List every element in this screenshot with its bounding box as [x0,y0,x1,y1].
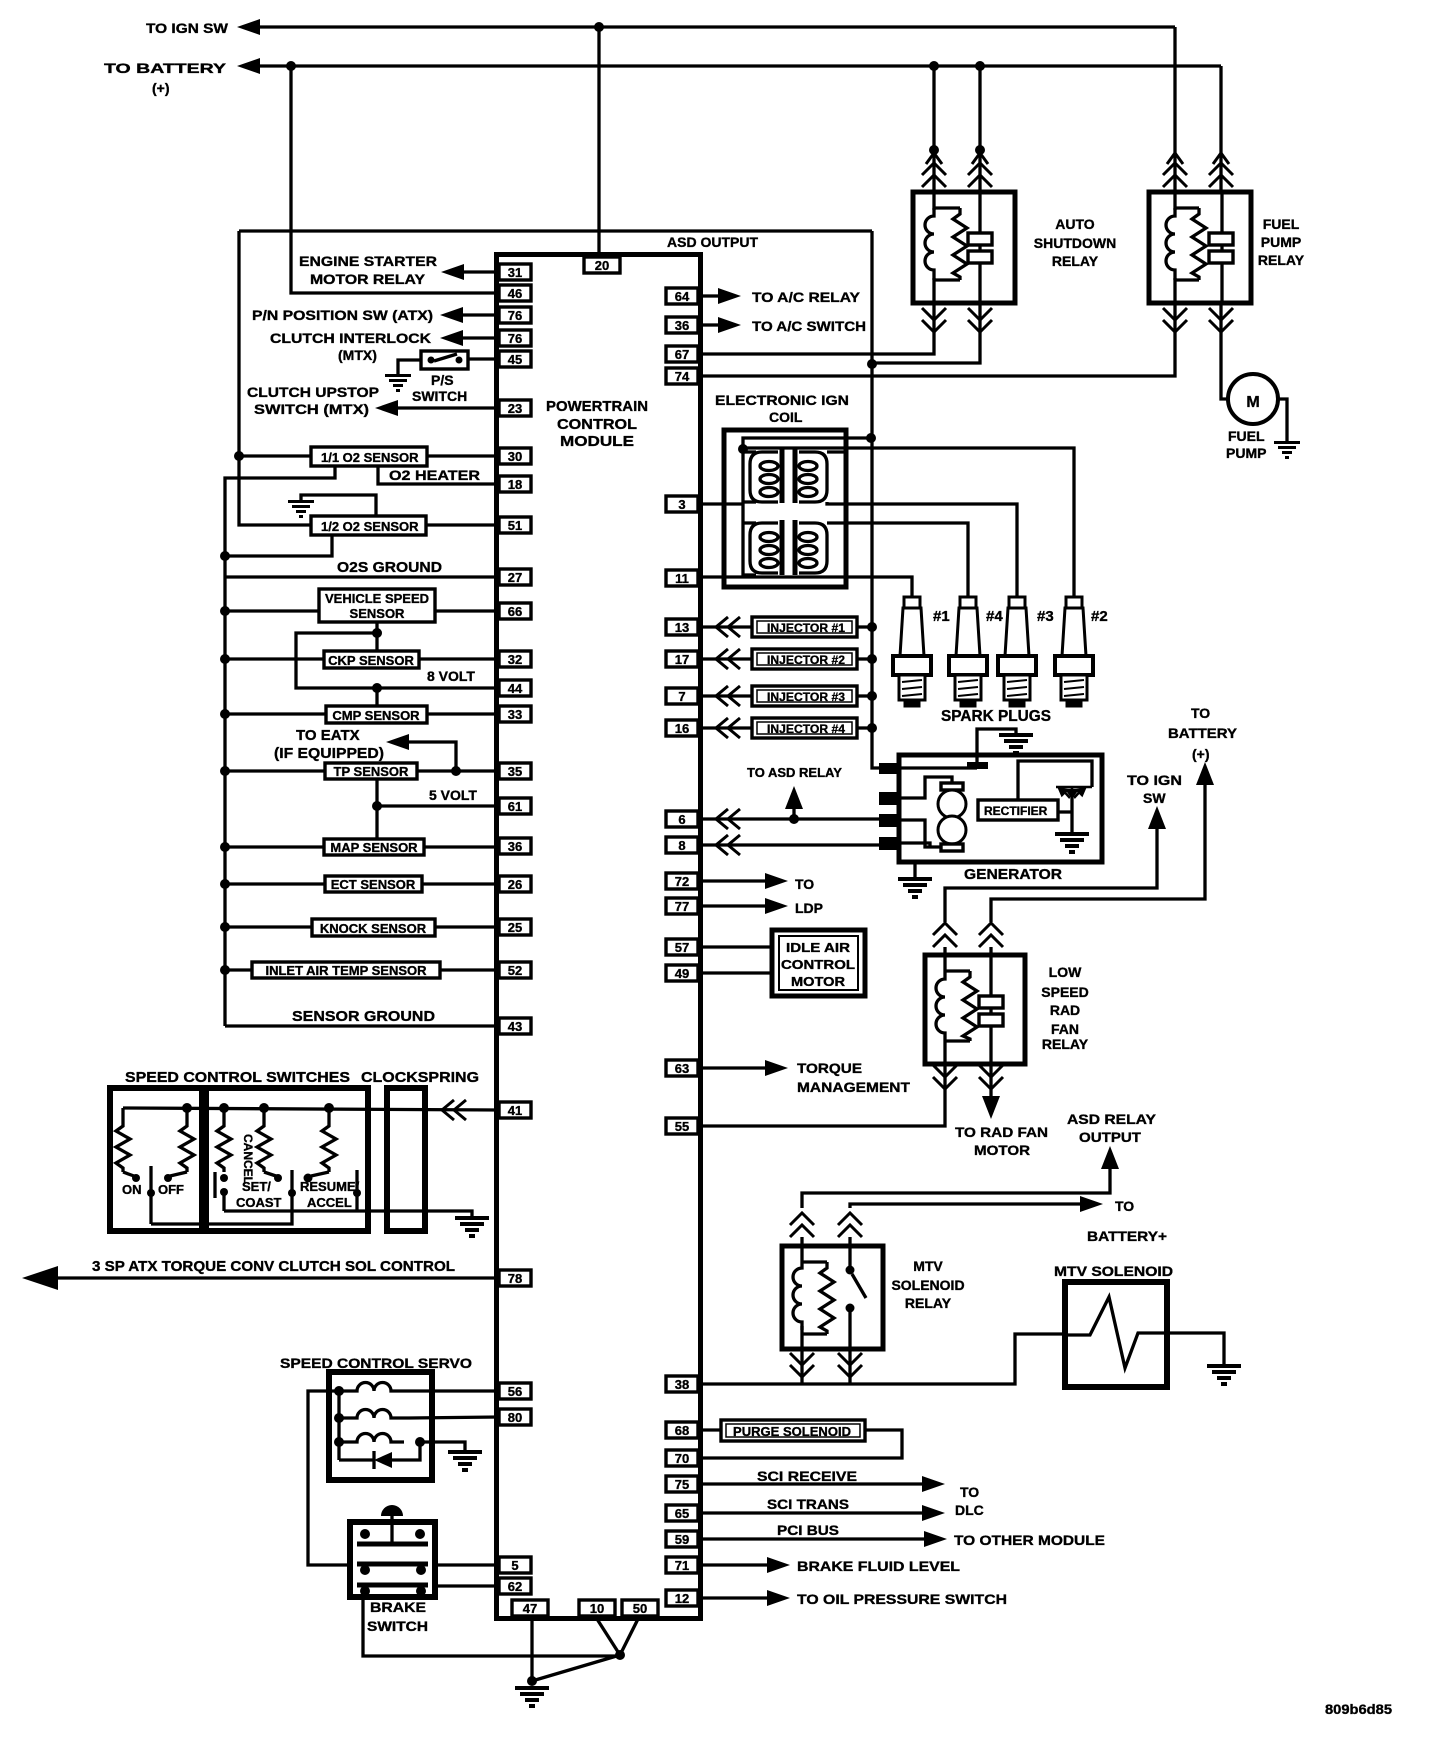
pin 33 (left) [499,706,531,722]
fan relay coil [943,947,946,971]
wire MTV contact leg [848,1349,851,1384]
pin 25 (left) [499,919,531,935]
wire ect left [225,882,325,885]
svg-text:36: 36 [675,318,689,333]
svg-text:RELAY: RELAY [1258,252,1305,268]
svg-text:44: 44 [508,681,523,696]
wire pin6 to generator [703,817,881,820]
wire MTV contact stub [848,1237,851,1267]
wire ASD relay output to MTV coil [802,1169,1110,1208]
wire vss left [225,609,319,612]
servo coil 2 [339,1410,409,1419]
svg-text:DLC: DLC [955,1502,984,1518]
pin 31 (left) [499,264,531,280]
svg-text:(+): (+) [1192,746,1210,762]
wire pin11 through coil to plug1 [703,577,912,597]
wire speed control feed to pin41 [123,1108,499,1110]
node battery to ASD coil [929,61,939,71]
svg-text:SWITCH (MTX): SWITCH (MTX) [254,401,369,417]
svg-text:33: 33 [508,707,522,722]
MTV relay coil [793,1262,802,1330]
pin 59 (right) [666,1531,698,1547]
svg-text:CONTROL: CONTROL [557,416,637,433]
svg-text:TO EATX: TO EATX [296,727,360,744]
relay LOW SPEED RAD FAN RELAY box [925,955,1025,1064]
svg-text:RELAY: RELAY [905,1295,952,1311]
injector #3 box [752,686,857,706]
node set top [259,1103,269,1113]
svg-text:BRAKE: BRAKE [370,1599,426,1615]
pin 5 (left) [499,1557,531,1573]
svg-text:78: 78 [508,1271,522,1286]
motor FUEL PUMP circle [1228,374,1278,424]
wire fan contact to rad fan motor [989,1064,992,1100]
svg-text:31: 31 [508,265,522,280]
pole bar resume [355,1170,358,1196]
pin 10 (bottom) [579,1600,615,1616]
svg-text:PCI BUS: PCI BUS [777,1522,839,1538]
MTV relay resistor [820,1262,834,1334]
wire ect to pin26 [422,882,499,885]
svg-text:(+): (+) [152,80,170,96]
wire 5 volt to pin61 [377,804,499,807]
svg-text:CONTROL: CONTROL [781,957,855,972]
wire generator tab3 internal [899,820,941,847]
pole bar cancel [213,1172,216,1198]
pin 52 (left) [499,962,531,978]
wire secondary1 to plug3 [827,502,1017,597]
transformer2 core [780,520,785,575]
generator brush top [941,783,963,790]
pin 55 (right) [666,1118,698,1134]
pole ON/OFF common [149,1166,152,1224]
generator rotor circles [938,790,966,818]
fuel relay resistor [1192,208,1206,280]
wire ASD contact drop [978,66,981,192]
svg-text:CMP SENSOR: CMP SENSOR [332,708,420,723]
svg-text:27: 27 [508,570,522,585]
arrow to ASD relay [792,808,795,819]
wire injector #1 to feed [857,625,872,628]
svg-text:30: 30 [508,449,522,464]
rectifier box [978,800,1058,820]
pin 35 (left) [499,763,531,779]
svg-text:75: 75 [675,1477,689,1492]
svg-text:FUEL: FUEL [1228,428,1265,444]
wire servo coil2 to pin80 [409,1417,499,1418]
svg-text:O2S GROUND: O2S GROUND [337,559,442,576]
wire pin78 torque conv clutch [55,1276,499,1279]
wire 1/1 O2 sensor to pin30 [427,454,499,457]
fuel relay contact [1209,233,1233,245]
pole bar set [290,1170,293,1196]
svg-text:38: 38 [675,1377,689,1392]
ASD relay resistor [953,208,967,280]
svg-text:32: 32 [508,652,522,667]
pin 36 (left) [499,838,531,854]
sensor ECT SENSOR box [325,876,422,892]
svg-text:COAST: COAST [236,1195,282,1210]
wire MTV coil bottom [800,1326,803,1349]
wire pin#1 injector [703,625,752,628]
pin 43 (left) [499,1018,531,1034]
wire 1/2 O2 sensor to pin51 [426,523,499,526]
pin 46 (left) [499,285,531,301]
ASD relay contact [968,233,992,245]
pin 44 (left) [499,680,531,696]
wire brake switch bottom to ground rail [363,1597,620,1656]
wire pin63 torque management [703,1066,765,1069]
transformer2 secondary winding [799,523,827,573]
wire generator field feed internal [899,766,977,769]
wire 1/1 O2 sensor left [239,454,311,457]
svg-text:17: 17 [675,652,689,667]
svg-text:1/2 O2 SENSOR: 1/2 O2 SENSOR [321,519,419,534]
connector MTV coil bottom [790,1353,814,1377]
svg-text:INLET AIR TEMP SENSOR: INLET AIR TEMP SENSOR [265,963,427,978]
svg-text:7: 7 [678,689,685,704]
svg-text:13: 13 [675,620,689,635]
ground spark plugs [999,735,1033,753]
sensor KNOCK SENSOR box [312,919,435,936]
svg-text:CLUTCH UPSTOP: CLUTCH UPSTOP [247,384,379,400]
wire MTV solenoid to ground [1148,1333,1224,1364]
svg-text:INJECTOR #1: INJECTOR #1 [767,621,845,635]
brake switch bar3 [357,1583,428,1588]
pin 18 (left) [499,476,531,492]
wire inlet left [225,968,252,971]
generator tab3 [879,814,900,827]
svg-text:O2 HEATER: O2 HEATER [389,467,480,483]
wire generator case ground [913,862,916,877]
svg-text:RAD: RAD [1050,1002,1080,1018]
pin 38 (right) [666,1376,698,1392]
node injector #1 feed [867,622,877,632]
injector #2 box [752,649,857,669]
svg-text:6: 6 [678,812,685,827]
svg-text:LOW: LOW [1049,964,1082,980]
wire MTV coil leg [800,1349,803,1384]
clockspring box [387,1088,425,1231]
svg-text:(IF EQUIPPED): (IF EQUIPPED) [274,745,384,762]
connector fan coil top [933,923,957,947]
svg-text:70: 70 [675,1451,689,1466]
node to asd relay branch [789,814,799,824]
svg-text:45: 45 [508,352,522,367]
connector fuel contact [1213,153,1229,164]
spark plug #1 [893,597,931,707]
svg-text:80: 80 [508,1410,522,1425]
svg-text:ASD RELAY: ASD RELAY [1067,1111,1157,1127]
resistor CANCEL [217,1108,231,1172]
node 8v ckp/cmp [372,683,382,693]
svg-text:63: 63 [675,1061,689,1076]
ground generator [898,879,932,897]
wire ASD coil to pin67 [703,303,934,354]
injector #1 box [752,617,857,637]
wire pin65 sci trans [703,1511,922,1514]
svg-text:ON: ON [122,1182,142,1197]
ground servo [448,1452,482,1470]
svg-text:BATTERY+: BATTERY+ [1087,1228,1167,1244]
svg-text:61: 61 [508,799,522,814]
svg-text:809b6d85: 809b6d85 [1325,1701,1392,1717]
generator tab2 [879,792,900,805]
pin 13 (right) [666,619,698,635]
svg-text:62: 62 [508,1579,522,1594]
wire secondary2 top to plug4 [827,523,968,597]
svg-text:P/S: P/S [431,372,454,388]
wire tp to pin35 [417,769,499,772]
svg-text:66: 66 [508,604,522,619]
svg-text:23: 23 [508,401,522,416]
arrow to ign sw right [1148,806,1166,829]
connector dot+fork ASD coil [929,145,939,155]
sensor 1/1 O2 SENSOR box [311,447,427,466]
connector fan contact top [979,923,1003,947]
wire sensor ground to pin43 [225,1024,499,1027]
pin 23 (left) [499,400,531,416]
wire pin38 to MTV relay and solenoid [703,1334,1065,1384]
svg-text:ELECTRONIC IGN: ELECTRONIC IGN [715,392,849,408]
wire pin59 pci bus [703,1537,924,1540]
pin 49 (right) [666,965,698,981]
resistor OFF [180,1108,194,1172]
wire pin12 oil pressure [703,1596,767,1599]
wire ASD feed left vertical x239 [237,231,240,456]
wire fan coil to pin55 [703,1064,945,1126]
connector fuel contact bottom [1209,308,1233,332]
svg-text:72: 72 [675,874,689,889]
wire pin20 vertical [597,27,600,257]
connector ASD contact bottom [968,308,992,332]
arrow to ign sw [237,19,260,35]
svg-text:12: 12 [675,1591,689,1606]
node knock ground [220,922,230,932]
wire cmp left [225,712,326,715]
wire tp left [225,769,325,772]
svg-text:67: 67 [675,347,689,362]
wire set pole to rail [290,1193,293,1211]
svg-text:OFF: OFF [158,1182,184,1197]
wire 1/2 O2 sensor ground return [225,535,332,556]
connector MTV coil top [790,1213,814,1237]
node vss ground [220,606,230,616]
pin 63 (right) [666,1060,698,1076]
wire inlet to pin52 [440,968,499,971]
node map ground [220,842,230,852]
pin 71 (right) [666,1557,698,1573]
node off top [182,1103,192,1113]
svg-text:MTV: MTV [913,1258,943,1274]
svg-text:TO: TO [795,876,814,892]
wire vss 8v stub [375,622,378,633]
node junction ign/pin20 [594,22,604,32]
wire fuel coil to pin74 [703,303,1175,376]
svg-text:52: 52 [508,963,522,978]
pin 17 (right) [666,651,698,667]
connector ASD contact [975,145,985,155]
wire ASD feed down to 1/2 O2 sensor [239,456,311,525]
pin 32 (left) [499,651,531,667]
svg-text:BRAKE FLUID LEVEL: BRAKE FLUID LEVEL [797,1558,961,1574]
svg-text:TO IGN: TO IGN [1127,772,1182,788]
wire injector #3 to feed [857,694,872,697]
ASD relay coil [932,192,935,210]
wire map left [225,845,324,848]
svg-text:RECTIFIER: RECTIFIER [984,804,1048,818]
svg-text:SCI TRANS: SCI TRANS [767,1496,849,1512]
connector fuel coil bottom [1163,308,1187,332]
sensor CKP SENSOR box [324,651,419,668]
svg-text:IDLE AIR: IDLE AIR [786,940,851,955]
svg-text:8: 8 [678,838,685,853]
pin 72 (right) [666,873,698,889]
svg-text:16: 16 [675,721,689,736]
pin 66 (left) [499,603,531,619]
pin 26 (left) [499,876,531,892]
transformer1 core [780,449,785,503]
svg-text:TO A/C SWITCH: TO A/C SWITCH [752,318,866,334]
wire ckp to pin32 [419,657,499,660]
wire injector #2 to feed [857,657,872,660]
wire fan coil bottom [943,1041,946,1064]
wire pin72 to LDP [703,879,765,882]
svg-text:25: 25 [508,920,522,935]
wire cancel to rail [222,1192,225,1211]
fan relay contact [979,996,1003,1008]
pin 45 (left) [499,351,531,367]
svg-text:77: 77 [675,899,689,914]
wire pin#2 injector [703,657,752,660]
svg-text:MOTOR RELAY: MOTOR RELAY [310,271,426,287]
connector MTV contact top [838,1213,862,1237]
svg-text:51: 51 [508,518,522,533]
wire diodes to ground [1070,798,1073,832]
wire pin8 to generator [703,843,881,846]
wire purge solenoid loop to pin70 [703,1430,902,1458]
svg-text:CKP SENSOR: CKP SENSOR [328,653,414,668]
wire ASD output feed horizontal y231 [239,229,872,232]
brake switch top contacts [360,1529,370,1539]
wire on/off bottom rail [151,1211,292,1224]
contact ON [123,1172,134,1176]
svg-text:BATTERY: BATTERY [1168,725,1238,741]
connector chevrons pin41 [442,1100,466,1120]
svg-text:5 VOLT: 5 VOLT [429,787,477,803]
arrow 3sp atx [22,1266,58,1290]
svg-text:M: M [1246,394,1259,411]
svg-text:#4: #4 [986,608,1003,625]
svg-text:#1: #1 [933,608,950,625]
svg-text:MOTOR: MOTOR [974,1142,1030,1158]
svg-text:3 SP ATX TORQUE CONV CLUTCH SO: 3 SP ATX TORQUE CONV CLUTCH SOL CONTROL [92,1258,455,1275]
resistor ON [116,1108,130,1172]
svg-text:71: 71 [675,1558,689,1573]
wire knock to pin25 [435,925,499,928]
wire ckp 8v stub [375,633,378,651]
sensor MAP SENSOR box [324,839,424,855]
sensor TP SENSOR box [325,763,417,779]
servo coil 1 [339,1383,409,1392]
idle air control motor box [772,930,865,996]
wire servo left to brake switch [308,1391,350,1565]
svg-text:55: 55 [675,1119,689,1134]
node servo coil3 right [415,1437,425,1447]
pin 51 (left) [499,517,531,533]
relay AUTO SHUTDOWN RELAY box [913,192,1015,303]
svg-text:18: 18 [508,477,522,492]
svg-text:FAN: FAN [1051,1021,1079,1037]
wire 1/1 O2 heater return [225,466,335,1026]
svg-text:TO A/C RELAY: TO A/C RELAY [752,289,861,305]
wire ckp left [225,657,324,660]
svg-text:68: 68 [675,1423,689,1438]
ground fuel pump [1274,443,1300,458]
arrow clutch interlock [440,330,463,346]
svg-text:SPEED: SPEED [1041,984,1088,1000]
coil box [724,430,846,587]
MTV solenoid element [1065,1297,1148,1368]
wire P/S switch to ground [398,360,421,374]
svg-text:OUTPUT: OUTPUT [1079,1129,1141,1145]
svg-text:LDP: LDP [795,900,823,916]
wire 8 volt feed loop [296,633,499,688]
svg-text:65: 65 [675,1506,689,1521]
svg-text:SPARK PLUGS: SPARK PLUGS [941,708,1051,725]
switch box cancel/set/resume [206,1088,368,1231]
spark plug #4 [949,597,987,707]
svg-text:8 VOLT: 8 VOLT [427,668,475,684]
fuel relay coil [1173,192,1176,210]
sensor VEHICLE SPEED SENSOR box [319,589,435,622]
pin 20 [584,257,620,273]
wire pin71 brake fluid level [703,1563,767,1566]
svg-text:TO: TO [1191,705,1210,721]
wire to eatx [404,742,456,771]
pin 30 (left) [499,448,531,464]
fan relay resistor [963,971,977,1041]
svg-text:CANCEL: CANCEL [241,1134,255,1184]
wire brake switch to pin62 [433,1584,499,1587]
pin 16 (right) [666,720,698,736]
pin 68 (right) [666,1422,698,1438]
node bottom gather [615,1650,625,1660]
connector ASD coil bottom [922,308,946,332]
svg-text:TORQUE: TORQUE [797,1060,862,1076]
arrow engine starter [441,264,464,280]
wire MTV coil stub [800,1237,803,1262]
svg-text:INJECTOR #4: INJECTOR #4 [767,722,845,736]
wire generator brush feed [899,777,952,798]
node battery branch left [286,61,296,71]
svg-text:TO BATTERY: TO BATTERY [104,60,227,76]
wire P/S switch to pin45 [468,357,499,360]
switch box on/off [110,1088,202,1231]
wire injector #4 to feed [857,726,872,729]
node O2 ground junction [220,551,230,561]
wire ASD contact to feed node [872,303,980,363]
node injector #2 feed [867,654,877,664]
wire pin#4 injector [703,726,752,729]
servo coil 3 [339,1434,404,1443]
wire spark plug ground bracket [977,729,1016,768]
servo left rail [337,1391,340,1460]
pin 75 (right) [666,1476,698,1492]
arrow clutch upstop [375,400,398,416]
servo box [329,1372,432,1480]
connector fan coil bottom [933,1065,957,1089]
